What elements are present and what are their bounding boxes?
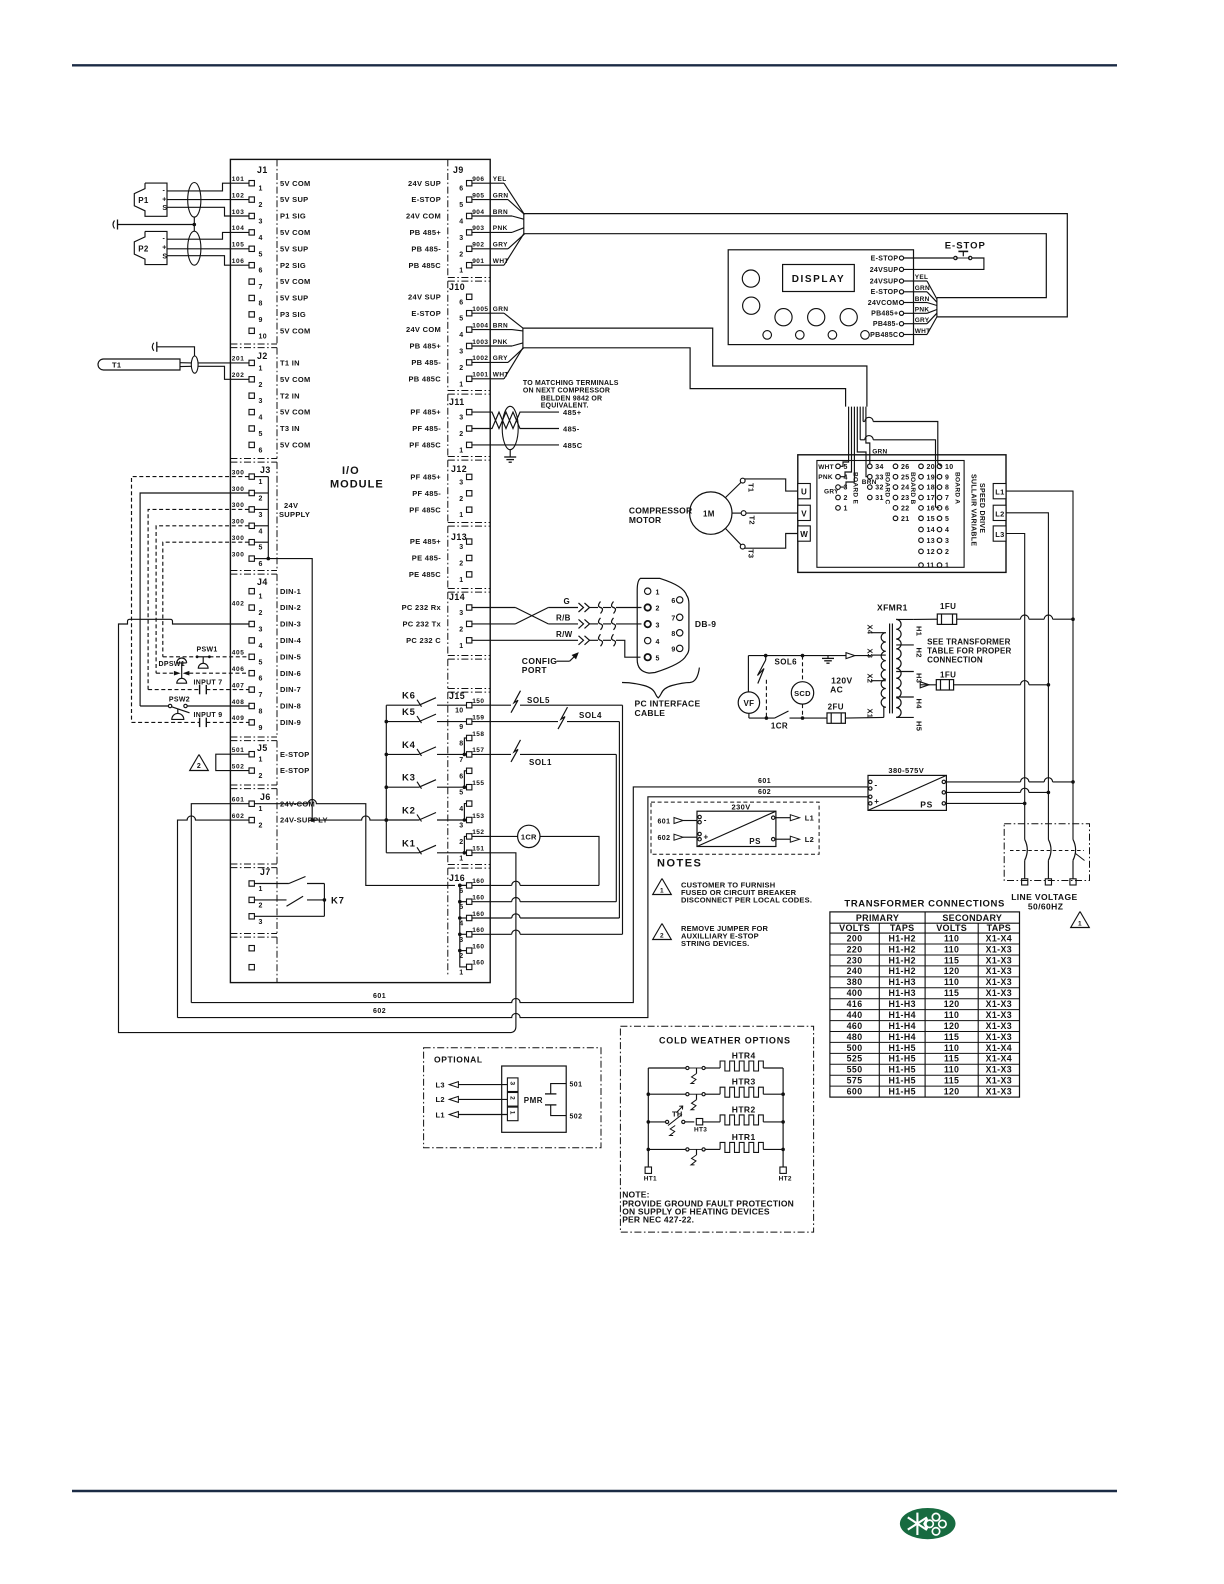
svg-text:1FU: 1FU (940, 602, 956, 611)
svg-text:+: + (874, 797, 879, 806)
svg-text:201: 201 (232, 356, 245, 363)
svg-text:H4: H4 (915, 699, 924, 710)
svg-text:T1: T1 (112, 361, 121, 370)
svg-text:3: 3 (259, 398, 263, 405)
svg-text:PF 485-: PF 485- (412, 424, 441, 433)
svg-text:1M: 1M (703, 509, 715, 518)
svg-text:2: 2 (660, 932, 664, 939)
svg-text:X1-X3: X1-X3 (986, 1021, 1012, 1031)
svg-text:OPTIONAL: OPTIONAL (434, 1055, 483, 1065)
svg-text:H1-H2: H1-H2 (888, 944, 915, 954)
230V PS input 601 (658, 818, 698, 826)
svg-text:H1-H2: H1-H2 (888, 966, 915, 976)
svg-text:485-: 485- (563, 425, 580, 434)
svg-text:PE 485C: PE 485C (409, 570, 441, 579)
230V PS dashed box (651, 802, 819, 854)
svg-text:7: 7 (259, 692, 263, 699)
svg-text:1002: 1002 (472, 355, 488, 362)
svg-text:S: S (162, 205, 167, 212)
display panel box (728, 250, 913, 345)
svg-text:J6: J6 (260, 792, 271, 802)
relay contact K1 (386, 838, 466, 854)
svg-text:115: 115 (944, 1032, 959, 1042)
transformer note (927, 638, 1011, 665)
svg-text:GRN: GRN (872, 449, 887, 456)
left connector separators (230, 344, 277, 937)
pressure transducer P1 (134, 183, 167, 216)
line voltage disconnect box (1004, 824, 1089, 881)
power supply PS 380-575V (868, 766, 946, 811)
svg-text:3: 3 (656, 622, 660, 629)
svg-text:E-STOP: E-STOP (871, 255, 899, 262)
wire J16 pin6 (472, 881, 599, 885)
svg-text:T3 IN: T3 IN (280, 424, 300, 433)
drive wire labels (818, 449, 887, 496)
svg-text:H1-H3: H1-H3 (888, 999, 915, 1009)
drive input wires (840, 407, 941, 508)
svg-text:H1-H3: H1-H3 (888, 977, 915, 987)
svg-text:902: 902 (472, 242, 484, 249)
svg-text:160: 160 (472, 878, 484, 885)
svg-text:230V: 230V (732, 803, 751, 812)
svg-text:H2: H2 (915, 648, 924, 658)
svg-text:31: 31 (875, 495, 883, 502)
svg-text:24: 24 (901, 485, 909, 492)
svg-text:160: 160 (472, 960, 484, 967)
svg-text:BRN: BRN (493, 209, 508, 216)
tap X2 (866, 674, 886, 684)
wire drive L1 (1006, 491, 1073, 839)
svg-text:+: + (162, 245, 166, 252)
wire 602 left run (178, 816, 249, 1018)
J3 supply bus (254, 477, 270, 561)
120V bottom rail (749, 711, 827, 730)
svg-text:5: 5 (459, 316, 463, 323)
svg-text:U: U (801, 488, 807, 497)
svg-text:101: 101 (232, 176, 245, 183)
wire DIN-3 / 151 run (119, 619, 516, 1032)
transformer XFMR1 label (877, 603, 908, 613)
svg-text:10: 10 (455, 708, 463, 715)
svg-text:BOARD E: BOARD E (852, 472, 859, 504)
svg-text:BRN: BRN (862, 479, 877, 486)
svg-text:416: 416 (847, 999, 863, 1009)
svg-text:PRIMARY: PRIMARY (856, 913, 899, 923)
wire 601 label (373, 993, 386, 1000)
heater HTR3 row (647, 1077, 785, 1110)
svg-text:406: 406 (232, 666, 245, 673)
wire 300 pin3 (148, 509, 249, 689)
svg-text:LINE VOLTAGE: LINE VOLTAGE (1011, 892, 1077, 902)
J11 shield earth ground (504, 450, 516, 463)
svg-text:ON NEXT COMPRESSOR: ON NEXT COMPRESSOR (523, 387, 610, 394)
svg-text:DISPLAY: DISPLAY (792, 274, 846, 285)
svg-text:110: 110 (944, 1043, 959, 1053)
PMR contact 501/502 (545, 1082, 582, 1121)
svg-text:PSW1: PSW1 (197, 647, 218, 654)
svg-text:1: 1 (459, 512, 463, 519)
svg-text:904: 904 (472, 209, 484, 216)
svg-text:500: 500 (847, 1043, 863, 1053)
T1 shield ground (152, 342, 194, 356)
svg-text:300: 300 (232, 519, 245, 526)
NOTES heading (657, 858, 702, 870)
relay contact K2 (386, 806, 466, 822)
drive board outline (817, 461, 964, 568)
svg-text:300: 300 (232, 469, 245, 476)
svg-text:120: 120 (944, 1021, 960, 1031)
display buttons (742, 270, 869, 339)
svg-text:+: + (704, 833, 709, 842)
wire 602 label right (758, 789, 771, 796)
svg-text:1: 1 (259, 186, 263, 193)
wire 300 pin5 (163, 542, 249, 657)
svg-text:9: 9 (671, 647, 675, 654)
svg-text:R/B: R/B (556, 614, 571, 623)
svg-text:PF 485C: PF 485C (409, 505, 441, 514)
svg-text:230: 230 (847, 955, 863, 965)
OPTIONAL dashed box (424, 1048, 601, 1148)
svg-text:-: - (163, 187, 166, 194)
svg-text:2: 2 (844, 495, 848, 502)
spare pins below J7 (249, 946, 254, 970)
svg-text:405: 405 (232, 650, 245, 657)
svg-text:L2: L2 (995, 509, 1004, 518)
svg-text:PS: PS (749, 837, 761, 846)
svg-text:402: 402 (232, 600, 245, 607)
svg-text:3: 3 (459, 544, 463, 551)
P2 cable shield (188, 231, 201, 265)
svg-text:DIN-1: DIN-1 (280, 587, 301, 596)
svg-text:SEE TRANSFORMER: SEE TRANSFORMER (927, 638, 1010, 647)
svg-text:159: 159 (472, 714, 484, 721)
svg-text:1FU: 1FU (940, 671, 956, 680)
svg-text:L1: L1 (995, 488, 1004, 497)
svg-text:J12: J12 (451, 464, 467, 474)
svg-text:6: 6 (671, 598, 675, 605)
P1 wires (167, 183, 249, 216)
display terminals (868, 255, 904, 339)
svg-text:2: 2 (197, 763, 201, 770)
svg-text:E-STOP: E-STOP (945, 240, 986, 251)
svg-text:V: V (801, 509, 807, 518)
svg-text:4: 4 (656, 639, 660, 646)
svg-text:GRY: GRY (493, 355, 508, 362)
svg-text:9: 9 (259, 725, 263, 732)
svg-text:BRN: BRN (915, 296, 930, 303)
config port label (522, 653, 578, 675)
svg-text:PE 485+: PE 485+ (410, 537, 441, 546)
svg-text:1: 1 (459, 969, 463, 976)
svg-text:10: 10 (945, 464, 953, 471)
svg-text:501: 501 (570, 1082, 583, 1089)
svg-text:5: 5 (259, 545, 263, 552)
svg-text:1: 1 (259, 594, 263, 601)
svg-text:5: 5 (459, 202, 463, 209)
svg-text:6: 6 (259, 676, 263, 683)
P1 cable shield (188, 183, 201, 218)
svg-text:4: 4 (259, 415, 263, 422)
svg-text:MODULE: MODULE (330, 479, 384, 491)
svg-text:3: 3 (459, 479, 463, 486)
svg-text:115: 115 (944, 1076, 959, 1086)
svg-text:HT3: HT3 (694, 1127, 707, 1134)
svg-text:24VSUP: 24VSUP (870, 267, 899, 274)
svg-text:16: 16 (927, 506, 935, 513)
svg-text:GRY: GRY (824, 489, 839, 496)
E-STOP pushbutton (904, 240, 986, 269)
cable break R/B (579, 618, 642, 630)
svg-text:601: 601 (373, 993, 386, 1000)
230V PS input 602 (658, 834, 698, 842)
svg-text:J13: J13 (451, 532, 467, 542)
svg-text:24V SUP: 24V SUP (408, 179, 441, 188)
svg-text:PORT: PORT (522, 665, 548, 675)
svg-text:NOTES: NOTES (657, 858, 702, 870)
svg-text:5V COM: 5V COM (280, 441, 311, 450)
svg-text:602: 602 (232, 813, 245, 820)
svg-text:AC: AC (830, 685, 843, 695)
svg-text:300: 300 (232, 486, 245, 493)
svg-text:115: 115 (944, 1054, 959, 1064)
svg-text:5V COM: 5V COM (280, 408, 311, 417)
svg-text:5V COM: 5V COM (280, 375, 311, 384)
svg-text:1004: 1004 (472, 322, 488, 329)
svg-text:X1-X3: X1-X3 (986, 999, 1012, 1009)
svg-text:3: 3 (945, 538, 949, 545)
right connector separators (448, 278, 490, 869)
svg-text:5: 5 (656, 655, 660, 662)
svg-text:110: 110 (944, 977, 959, 987)
svg-text:903: 903 (472, 225, 484, 232)
svg-text:J7: J7 (260, 867, 271, 877)
svg-text:DISCONNECT PER LOCAL CODES.: DISCONNECT PER LOCAL CODES. (681, 896, 812, 905)
svg-text:PC 232 Tx: PC 232 Tx (402, 620, 441, 629)
svg-text:13: 13 (927, 538, 935, 545)
J15 pin jumpers (463, 738, 467, 855)
tap H2 (896, 645, 923, 658)
svg-text:J16: J16 (449, 873, 465, 883)
wire J16 pin3 (472, 930, 623, 934)
tap X3 (866, 649, 886, 659)
svg-text:4: 4 (844, 474, 848, 481)
svg-text:TAPS: TAPS (890, 923, 915, 933)
heater HTR4 row (648, 1051, 783, 1084)
svg-text:PB 485-: PB 485- (411, 358, 441, 367)
svg-text:6: 6 (459, 773, 463, 780)
svg-text:5V COM: 5V COM (280, 326, 311, 335)
connector J4 (232, 577, 302, 732)
svg-text:400: 400 (847, 988, 863, 998)
svg-text:11: 11 (927, 563, 935, 570)
svg-text:X1-X3: X1-X3 (986, 944, 1012, 954)
svg-text:STRING DEVICES.: STRING DEVICES. (681, 939, 749, 948)
svg-text:6: 6 (945, 506, 949, 513)
connector J11 (409, 397, 472, 454)
svg-text:5: 5 (259, 251, 263, 258)
svg-text:6: 6 (259, 268, 263, 275)
transformer secondary winding (881, 633, 886, 707)
svg-text:PB 485+: PB 485+ (410, 342, 442, 351)
svg-text:485C: 485C (563, 441, 583, 450)
svg-text:120: 120 (944, 966, 960, 976)
drive terminal L2 (993, 505, 1006, 520)
svg-text:MOTOR: MOTOR (629, 515, 661, 525)
phase monitor PMR (502, 1066, 567, 1132)
heater HTR2 row (647, 1104, 785, 1125)
svg-text:25: 25 (901, 474, 909, 481)
surge device SCD (791, 656, 813, 720)
svg-text:GRN: GRN (493, 306, 509, 313)
svg-text:PSW2: PSW2 (169, 696, 190, 703)
svg-text:COMPRESSOR: COMPRESSOR (629, 506, 692, 516)
svg-text:X3: X3 (866, 649, 875, 659)
svg-text:110: 110 (944, 1065, 959, 1075)
svg-text:PF 485C: PF 485C (409, 441, 441, 450)
svg-text:J11: J11 (449, 397, 465, 407)
wire 201 (198, 362, 249, 364)
pressure switch PSW2 (140, 696, 249, 719)
svg-text:480: 480 (847, 1032, 863, 1042)
svg-text:PB485+: PB485+ (871, 311, 898, 318)
svg-text:220: 220 (847, 944, 863, 954)
relay contact K6 (386, 691, 466, 707)
120V AC label (830, 675, 852, 694)
svg-text:P1: P1 (138, 196, 149, 205)
svg-text:BRN: BRN (493, 322, 508, 329)
svg-text:X2: X2 (866, 674, 875, 684)
cable break G (579, 602, 642, 614)
svg-text:J2: J2 (257, 351, 268, 361)
motor leads (726, 479, 798, 548)
svg-text:1: 1 (259, 886, 263, 893)
connector J15 (449, 691, 484, 862)
svg-text:S: S (162, 253, 167, 260)
svg-text:1CR: 1CR (771, 721, 788, 730)
DB-9 connector (637, 578, 689, 673)
T1 cable shield (191, 356, 198, 373)
cold weather title (659, 1036, 791, 1046)
svg-text:P2: P2 (138, 244, 149, 253)
svg-text:1: 1 (459, 268, 463, 275)
svg-text:24V SUP: 24V SUP (408, 292, 441, 301)
svg-text:INPUT 7: INPUT 7 (194, 680, 223, 687)
24V supply feed wire (268, 559, 314, 822)
J11 cable shield (502, 406, 518, 449)
svg-text:4: 4 (945, 527, 949, 534)
tap X4 (866, 625, 886, 635)
svg-text:34: 34 (875, 464, 883, 471)
connector J5 (232, 743, 310, 780)
PMR input L3 (436, 1080, 508, 1089)
wire 601 bottom run (191, 787, 868, 1003)
DB-9 label (695, 619, 716, 629)
svg-text:160: 160 (472, 911, 484, 918)
svg-text:E-STOP: E-STOP (411, 195, 441, 204)
drive terminal V (798, 505, 811, 520)
svg-text:H1-H2: H1-H2 (888, 955, 915, 965)
drive board A circles (919, 464, 961, 570)
svg-text:PNK: PNK (493, 339, 508, 346)
svg-text:24VCOM: 24VCOM (868, 300, 899, 307)
svg-text:5V COM: 5V COM (280, 277, 311, 286)
svg-text:SUPPLY: SUPPLY (279, 510, 310, 519)
wire 602 to K bus (312, 816, 388, 822)
svg-text:X1-X3: X1-X3 (986, 1032, 1012, 1042)
speed drive outline (798, 455, 1006, 573)
svg-text:151: 151 (472, 846, 484, 853)
svg-text:1: 1 (660, 887, 664, 894)
svg-text:24V COM: 24V COM (406, 325, 441, 334)
wire 601 left run (191, 804, 249, 1003)
svg-text:120: 120 (944, 1087, 960, 1097)
svg-text:22: 22 (901, 506, 909, 513)
svg-text:153: 153 (472, 813, 484, 820)
svg-text:2: 2 (459, 839, 463, 846)
svg-text:202: 202 (232, 372, 245, 379)
svg-text:3: 3 (459, 235, 463, 242)
I/O MODULE label (330, 465, 384, 491)
svg-text:8: 8 (459, 741, 463, 748)
heater right bus (779, 1068, 792, 1183)
svg-text:7: 7 (945, 495, 949, 502)
svg-text:300: 300 (232, 502, 245, 509)
svg-text:2: 2 (945, 549, 949, 556)
svg-text:K7: K7 (331, 896, 345, 907)
svg-text:L1: L1 (436, 1110, 445, 1119)
relay coil 1CR (472, 825, 599, 885)
svg-text:DIN-7: DIN-7 (280, 685, 301, 694)
tap H5 (896, 717, 923, 731)
svg-text:3: 3 (459, 349, 463, 356)
svg-text:YEL: YEL (915, 274, 929, 281)
svg-text:8: 8 (671, 631, 675, 638)
svg-text:SULLAIR VARIABLE: SULLAIR VARIABLE (970, 474, 977, 546)
svg-text:XFMR1: XFMR1 (877, 603, 908, 613)
svg-text:H1-H5: H1-H5 (888, 1065, 915, 1075)
drive board B circles (893, 464, 916, 523)
svg-text:H1-H4: H1-H4 (888, 1032, 915, 1042)
svg-text:SOL5: SOL5 (527, 696, 550, 705)
svg-text:2: 2 (459, 251, 463, 258)
svg-text:4: 4 (259, 528, 263, 535)
wire 300 pin2 (140, 493, 249, 706)
svg-text:-: - (163, 236, 166, 243)
PMR input L2 (436, 1095, 508, 1104)
svg-text:H1-H5: H1-H5 (888, 1087, 915, 1097)
svg-text:24VSUP: 24VSUP (870, 278, 899, 285)
left connector boundaries (276, 159, 278, 982)
svg-text:L3: L3 (436, 1080, 445, 1089)
connector J3 (232, 465, 310, 568)
svg-text:602: 602 (758, 789, 771, 796)
wire drive L3 (1006, 534, 1025, 840)
shield drain wire (118, 217, 196, 231)
svg-text:X1-X3: X1-X3 (986, 977, 1012, 987)
connector J16 (449, 873, 484, 976)
svg-text:1: 1 (945, 563, 949, 570)
pressure switch PSW1 (163, 647, 249, 669)
svg-text:1001: 1001 (472, 372, 488, 379)
wire 602 label (373, 1008, 386, 1015)
svg-text:3: 3 (459, 823, 463, 830)
svg-text:3: 3 (459, 610, 463, 617)
svg-text:G: G (564, 597, 571, 606)
J9 cable run upper (524, 214, 1068, 317)
svg-text:9: 9 (459, 724, 463, 731)
svg-text:T1: T1 (747, 483, 756, 492)
svg-text:115: 115 (944, 988, 959, 998)
